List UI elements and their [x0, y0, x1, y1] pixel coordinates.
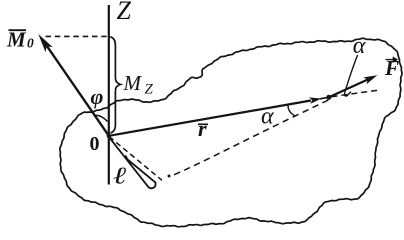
svg-text:0: 0 — [27, 36, 34, 51]
svg-text:α: α — [261, 103, 274, 129]
svg-text:Z: Z — [145, 82, 154, 98]
svg-text:ℓ: ℓ — [113, 163, 127, 189]
svg-text:0: 0 — [90, 133, 100, 155]
svg-text:r: r — [198, 116, 207, 141]
svg-text:φ: φ — [91, 84, 104, 109]
svg-text:α: α — [353, 33, 366, 59]
svg-text:M: M — [123, 71, 143, 95]
svg-text:Z: Z — [117, 0, 132, 25]
